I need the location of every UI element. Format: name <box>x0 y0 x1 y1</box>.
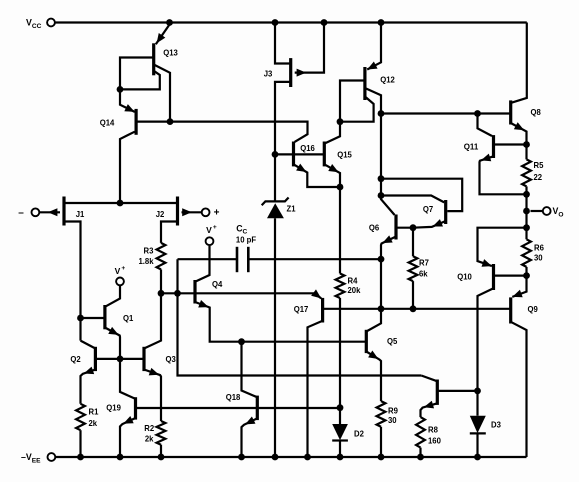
terminal plus input <box>202 208 220 219</box>
junction Q7/Q6 collector line <box>378 192 385 199</box>
svg-text:Q13: Q13 <box>163 48 178 58</box>
junction -VEE rail / Z1 <box>272 454 279 461</box>
transistor Q13 <box>120 25 178 122</box>
resistor R1 <box>76 404 99 457</box>
svg-text:Q14: Q14 <box>100 117 115 127</box>
transistor (current-limit, unlabeled) <box>421 376 478 418</box>
junction Q13 collector / Q14 base line <box>167 118 174 125</box>
junction Q7 base line <box>378 175 385 182</box>
terminal VO <box>531 206 564 218</box>
diode D3 <box>470 391 501 457</box>
resistor R4 <box>336 187 361 408</box>
transistor Q7 <box>413 200 446 230</box>
junction R7 / Q17-Q9 base line <box>410 305 417 312</box>
transistor Q2 <box>70 341 144 404</box>
svg-text:R6: R6 <box>534 243 544 253</box>
junction -VEE rail / Q17 collector <box>304 454 311 461</box>
transistor Q17 <box>294 289 511 457</box>
resistor R7 <box>409 228 430 309</box>
junction VCC / J3 drain <box>272 19 279 26</box>
svg-text:J1: J1 <box>76 209 85 219</box>
wire Q7 collector line <box>381 196 444 203</box>
junction VCC / Q12 emitter <box>378 19 385 26</box>
junction -VEE rail / R2 <box>158 454 165 461</box>
svg-text:J2: J2 <box>156 209 165 219</box>
svg-text:Q2: Q2 <box>70 354 81 364</box>
wire base line R3 to Q4/Q17 <box>161 292 315 294</box>
junction J3 source / Q16 base <box>272 151 279 158</box>
svg-text:+: + <box>121 265 125 272</box>
svg-text:1.8k: 1.8k <box>138 256 153 266</box>
resistor R8 <box>416 417 441 457</box>
junction J1 drain / Q1 base / Q2 collector <box>77 315 84 322</box>
transistor Q1 <box>81 285 134 359</box>
svg-text:2k: 2k <box>89 418 98 428</box>
svg-text:30: 30 <box>388 415 397 425</box>
junction R5 bottom / Q11 emitter <box>523 191 530 198</box>
junction Q6 base / Q7 emitter / R7 <box>410 224 417 231</box>
svg-text:Q16: Q16 <box>300 143 315 153</box>
junction Q12 base-collector node <box>337 118 344 125</box>
junction -VEE rail / R9 <box>378 454 385 461</box>
junction J1-J2 source / Q14 collector <box>117 200 124 207</box>
transistor Q9 <box>511 276 538 457</box>
terminal V+ upper <box>206 224 217 245</box>
svg-text:Q18: Q18 <box>226 392 241 402</box>
junction Q17-Q9 base line / Q5 collector <box>378 305 385 312</box>
transistor Q3 <box>144 293 176 421</box>
transistor Q14 <box>100 89 308 203</box>
junction R3 / Q3 collector / Q4 base line <box>158 290 165 297</box>
wire Q7 base loop <box>381 179 462 211</box>
svg-text:R9: R9 <box>388 406 398 416</box>
svg-text:V: V <box>115 266 121 276</box>
wire Q12 collector to Q8 base <box>381 112 511 114</box>
junction -VEE rail / R1 <box>77 454 84 461</box>
terminal V+ lower <box>115 265 126 285</box>
junction Q1 emitter / Q2-Q3 base / Q19 collector <box>117 356 124 363</box>
transistor Q5 <box>366 309 397 401</box>
svg-text:R8: R8 <box>428 424 438 434</box>
junction Q10 collector / D3 / base <box>474 388 481 395</box>
JFET J2 <box>156 197 202 243</box>
transistor Q12 <box>340 23 395 122</box>
svg-text:R1: R1 <box>89 407 99 417</box>
junction VCC / Q13 emitter <box>166 19 173 26</box>
svg-text:Q7: Q7 <box>423 204 434 214</box>
svg-text:Q12: Q12 <box>380 74 395 84</box>
terminal minus input <box>18 207 39 218</box>
svg-text:Q4: Q4 <box>212 279 223 289</box>
svg-text:22: 22 <box>534 172 543 182</box>
svg-text:30: 30 <box>534 253 543 263</box>
svg-text:R5: R5 <box>534 160 544 170</box>
resistor R9 <box>377 401 399 457</box>
JFET J3 <box>264 23 324 155</box>
JFET J1 <box>39 197 177 319</box>
svg-text:Z1: Z1 <box>287 204 296 214</box>
svg-text:Q9: Q9 <box>528 304 539 314</box>
junction -VEE rail / D2 <box>337 454 344 461</box>
svg-text:Q1: Q1 <box>123 313 134 323</box>
svg-text:V: V <box>206 225 212 235</box>
svg-text:D2: D2 <box>354 429 364 439</box>
svg-text:160: 160 <box>428 435 441 445</box>
zener Z1 <box>262 154 296 457</box>
junction Q8 emitter / R5 / Q11 base <box>523 141 530 148</box>
junction Q12 collector / Q8 base line <box>378 110 385 117</box>
junction -VEE rail / R8 <box>417 454 424 461</box>
diode D2 <box>332 408 364 457</box>
resistor R5 <box>522 145 544 195</box>
junction VO tap <box>523 208 530 215</box>
svg-text:+: + <box>213 224 217 231</box>
junction Q8 base / Q11 collector <box>474 110 481 117</box>
svg-text:D3: D3 <box>491 420 501 430</box>
transistor Q4 <box>195 245 242 342</box>
svg-text:R4: R4 <box>348 276 358 286</box>
svg-text:20k: 20k <box>348 285 361 295</box>
junction Q13 base-collector node <box>117 86 124 93</box>
transistor Q15 <box>324 122 352 187</box>
transistor Q16 <box>275 142 340 188</box>
junction VCC / J3 gate <box>321 19 328 26</box>
wire VCC rail <box>55 21 527 23</box>
junction CC / Q6 emitter <box>378 256 385 263</box>
transistor Q11 <box>464 114 527 195</box>
svg-text:Q6: Q6 <box>369 223 380 233</box>
wire Q12 collector column <box>381 114 395 215</box>
wire CC corner column <box>178 259 422 375</box>
resistor R6 <box>522 228 544 276</box>
svg-text:2k: 2k <box>145 433 154 443</box>
transistor Q10 <box>457 228 526 391</box>
junction R6 bottom / Q10 base / Q9 emitter <box>523 272 530 279</box>
svg-text:Q3: Q3 <box>166 354 177 364</box>
wire Q4 emitter line to Q5 base <box>242 341 367 343</box>
svg-text:Q11: Q11 <box>464 141 479 151</box>
resistor R2 <box>144 421 165 457</box>
junction -VEE rail / D3 <box>474 454 481 461</box>
wire VCC rail right drop to Q8 <box>511 23 527 103</box>
svg-text:Q5: Q5 <box>387 336 398 346</box>
svg-text:R3: R3 <box>144 245 154 255</box>
svg-text:Q15: Q15 <box>337 150 352 160</box>
terminal -VEE <box>21 452 55 464</box>
svg-text:10 pF: 10 pF <box>236 234 256 244</box>
svg-text:Q17: Q17 <box>294 304 309 314</box>
svg-text:R7: R7 <box>419 258 429 268</box>
svg-text:6k: 6k <box>419 268 428 278</box>
junction Q15/Q16 emitters / R4 <box>337 184 344 191</box>
resistor R3 <box>138 243 165 293</box>
junction Q4 emitter line / Q18 collector <box>238 338 245 345</box>
wire R5 node to VO <box>525 194 527 227</box>
junction R6 top / Q10 emitter line <box>523 224 530 231</box>
wire CC node down to base line <box>380 259 382 309</box>
terminal VCC <box>26 18 55 30</box>
svg-text:+: + <box>214 208 220 219</box>
svg-text:R2: R2 <box>144 423 154 433</box>
transistor Q18 <box>226 342 340 457</box>
wire J1 drain to Q2 collector <box>79 318 81 341</box>
junction -VEE rail / Q19 emitter <box>117 454 124 461</box>
wire -VEE rail <box>55 456 526 458</box>
junction Q18-Q19 base line / D2 <box>337 404 344 411</box>
svg-text:–: – <box>18 207 24 218</box>
svg-text:Q10: Q10 <box>457 272 472 282</box>
transistor Q6 <box>369 215 413 260</box>
transistor Q8 <box>511 100 541 144</box>
junction -VEE rail / Q18 emitter <box>238 454 245 461</box>
capacitor CC 10pF <box>178 223 382 272</box>
svg-text:Q19: Q19 <box>106 402 121 412</box>
svg-text:Q8: Q8 <box>531 107 542 117</box>
transistor Q19 <box>106 359 257 457</box>
svg-text:J3: J3 <box>264 69 273 79</box>
junction CC corner column / base line <box>174 290 181 297</box>
